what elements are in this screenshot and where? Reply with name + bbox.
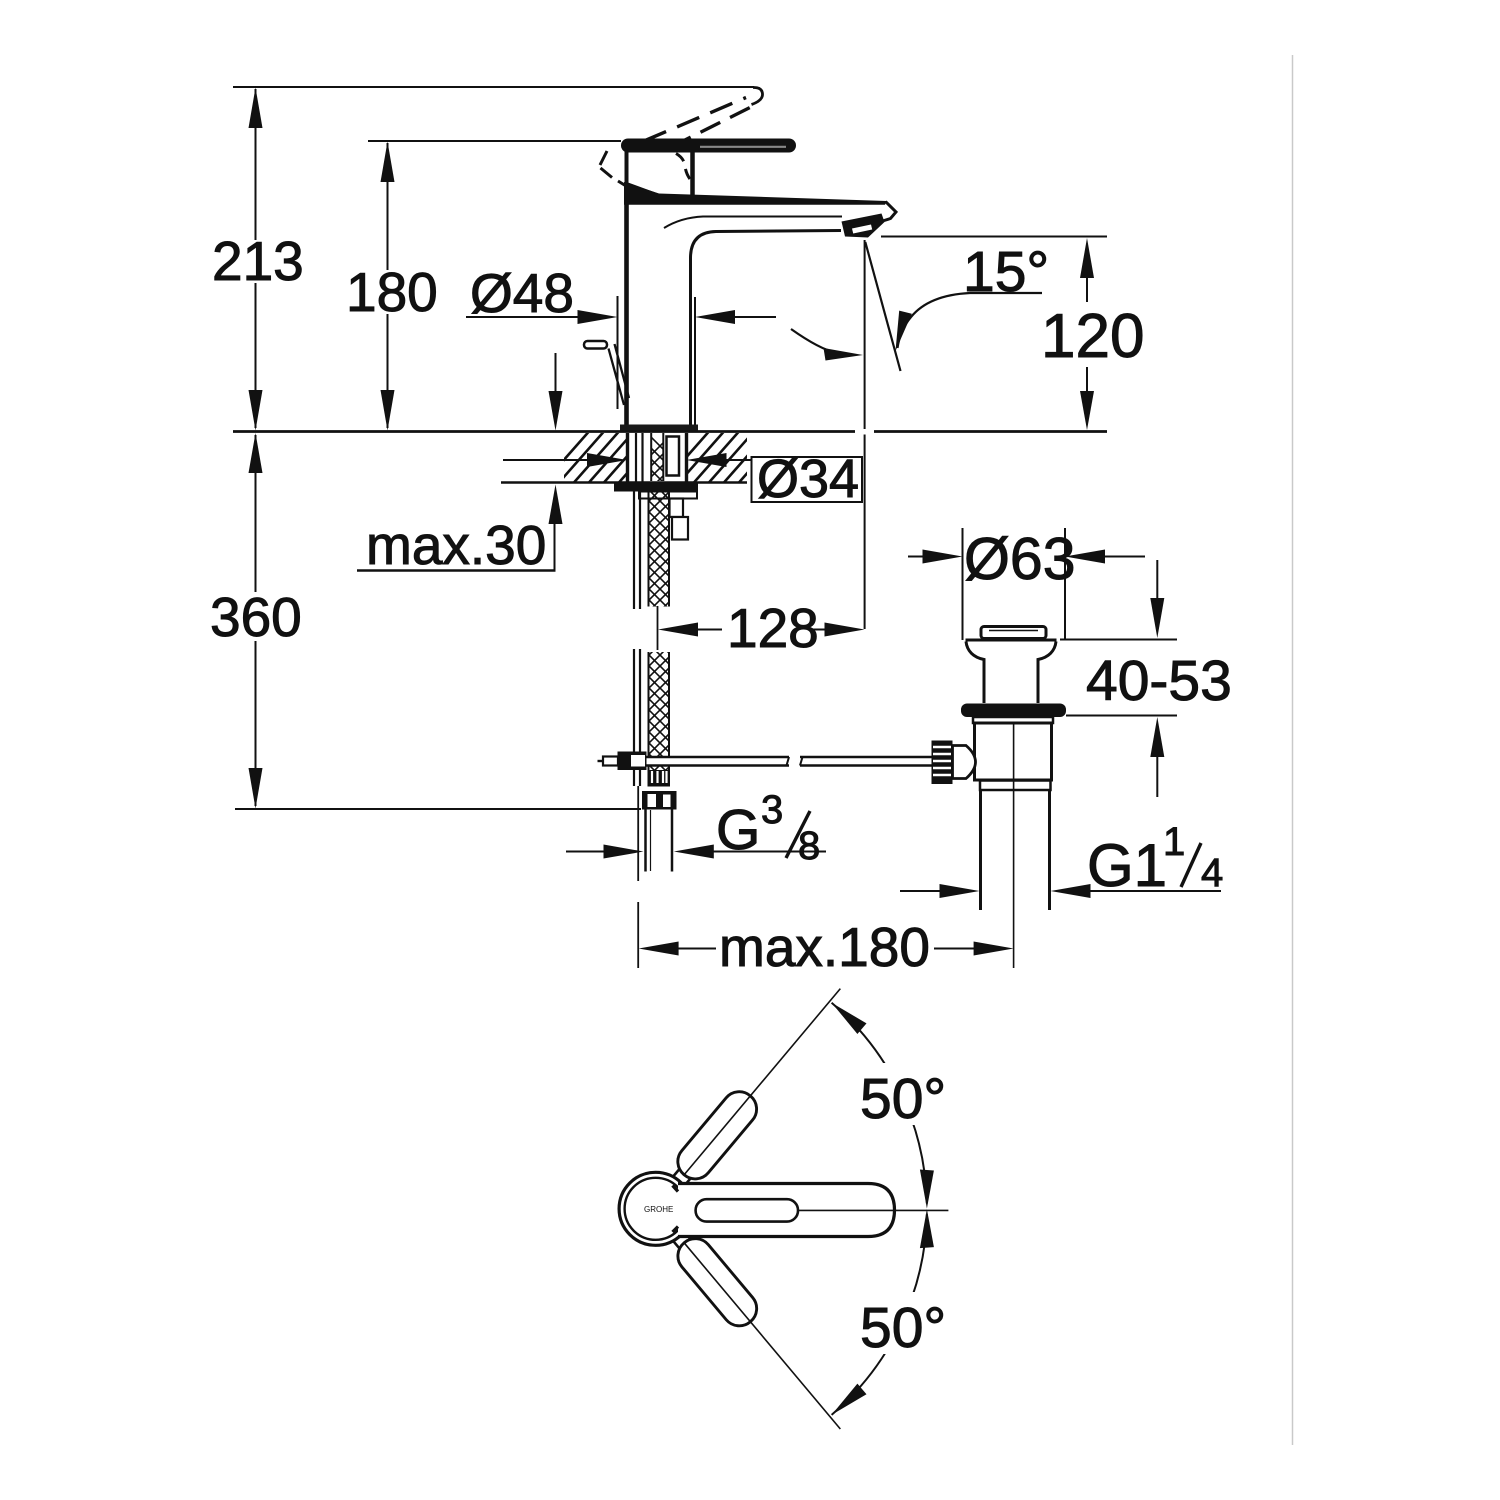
node handle base solid xyxy=(625,140,629,185)
node 15deg slant line xyxy=(865,242,900,371)
wire dim 360 vertical xyxy=(255,435,257,592)
node drain valve body xyxy=(975,723,1052,780)
svg-text:50°: 50° xyxy=(860,1067,946,1131)
svg-text:8: 8 xyxy=(798,824,820,868)
node flange nut below counter xyxy=(614,482,698,492)
node hose crimp knurl xyxy=(648,770,671,787)
node reference line 180 xyxy=(368,140,621,142)
wire dim 180 vertical xyxy=(387,143,389,270)
svg-text:G: G xyxy=(716,798,760,862)
node rod guide fitting xyxy=(670,499,684,518)
svg-text:Ø48: Ø48 xyxy=(470,262,574,324)
node top view ghost lever upper xyxy=(664,978,853,1194)
node G38 nut xyxy=(642,791,677,810)
node raised-handle tip curl xyxy=(752,87,763,104)
svg-text:4: 4 xyxy=(1201,851,1223,895)
node handle front edge xyxy=(690,151,695,197)
node spout underside upper line xyxy=(664,217,842,229)
svg-text:50°: 50° xyxy=(860,1296,946,1360)
node mounting stud in hole xyxy=(667,437,680,476)
node top reference line 213 xyxy=(233,86,754,88)
node spout top band xyxy=(624,182,887,205)
node faucet body left edge xyxy=(624,204,629,426)
svg-text:360: 360 xyxy=(210,586,302,648)
svg-text:15°: 15° xyxy=(963,240,1049,304)
node braided hose xyxy=(640,426,680,829)
node drain axis line xyxy=(1013,723,1015,968)
node drain tail pipe xyxy=(979,790,982,910)
node hole walls xyxy=(626,433,629,482)
wire dim 40-53 xyxy=(1060,639,1177,641)
node base gasket xyxy=(620,425,698,432)
wire dim O34 xyxy=(503,459,589,461)
node pull rod vertical xyxy=(634,433,643,786)
node counter hatch right xyxy=(660,428,787,487)
node counter top line xyxy=(233,430,855,433)
wire dim 128 xyxy=(658,623,698,637)
wire 15deg leader xyxy=(898,293,1043,348)
svg-text:G1: G1 xyxy=(1087,832,1167,899)
node handle dashed raised outline xyxy=(644,98,746,142)
svg-text:120: 120 xyxy=(1041,302,1144,371)
svg-text:max.180: max.180 xyxy=(719,916,930,978)
svg-text:GROHE: GROHE xyxy=(644,1205,673,1214)
node water axis extension xyxy=(864,240,866,429)
node drain body ring xyxy=(980,781,1051,791)
svg-text:max.30: max.30 xyxy=(366,514,546,576)
node pull rod knob at body xyxy=(584,341,607,349)
wire dim G114 xyxy=(900,890,941,892)
wire max30 lower arrow and leader xyxy=(549,485,563,525)
node top view ghost lever lower xyxy=(665,1224,854,1440)
node top view body circle xyxy=(619,1172,692,1245)
node drain flange xyxy=(966,639,1057,642)
node drain seal ring xyxy=(961,704,1066,718)
svg-text:213: 213 xyxy=(212,230,304,292)
node hose axis at break xyxy=(657,606,659,650)
wire dim G38 xyxy=(566,851,605,853)
wire dim 213 vertical xyxy=(255,89,257,240)
node counter bottom line xyxy=(501,481,747,484)
wire faint right border line xyxy=(1292,55,1294,1445)
node aerator xyxy=(842,214,885,238)
node drain pop-up cap xyxy=(981,627,1046,639)
svg-text:180: 180 xyxy=(346,261,438,323)
node top view centerline xyxy=(798,1209,948,1211)
svg-text:Ø63: Ø63 xyxy=(964,526,1076,592)
wire 50deg arc upper xyxy=(832,1003,927,1204)
node faucet body inner right edge and corner xyxy=(691,231,842,427)
node drain linkage rod xyxy=(644,758,670,765)
wire dim O48 xyxy=(617,296,619,409)
node lever bar xyxy=(621,139,796,153)
wire dim max180 xyxy=(639,942,679,956)
wire dim O63 xyxy=(962,528,964,640)
svg-text:Ø34: Ø34 xyxy=(757,449,859,509)
node spout tip face xyxy=(881,202,896,222)
node supply tube xyxy=(644,810,647,872)
svg-text:1: 1 xyxy=(1163,820,1185,864)
node counter hatch left xyxy=(540,428,667,487)
node 360 baseline xyxy=(235,808,641,810)
node tee collar xyxy=(953,746,976,779)
svg-text:40-53: 40-53 xyxy=(1086,649,1232,713)
wire dim 120 xyxy=(881,236,1107,238)
node rod clamp xyxy=(618,752,647,771)
node top view lever ridge xyxy=(696,1199,798,1221)
node top view lever xyxy=(678,1184,895,1237)
svg-text:3: 3 xyxy=(761,788,783,832)
wire max30 upper arrow xyxy=(555,353,557,392)
node tee knurled knob xyxy=(932,741,953,785)
svg-text:128: 128 xyxy=(727,597,819,659)
wire 50deg arc lower xyxy=(832,1214,927,1415)
wire 15deg left arc xyxy=(791,329,836,353)
